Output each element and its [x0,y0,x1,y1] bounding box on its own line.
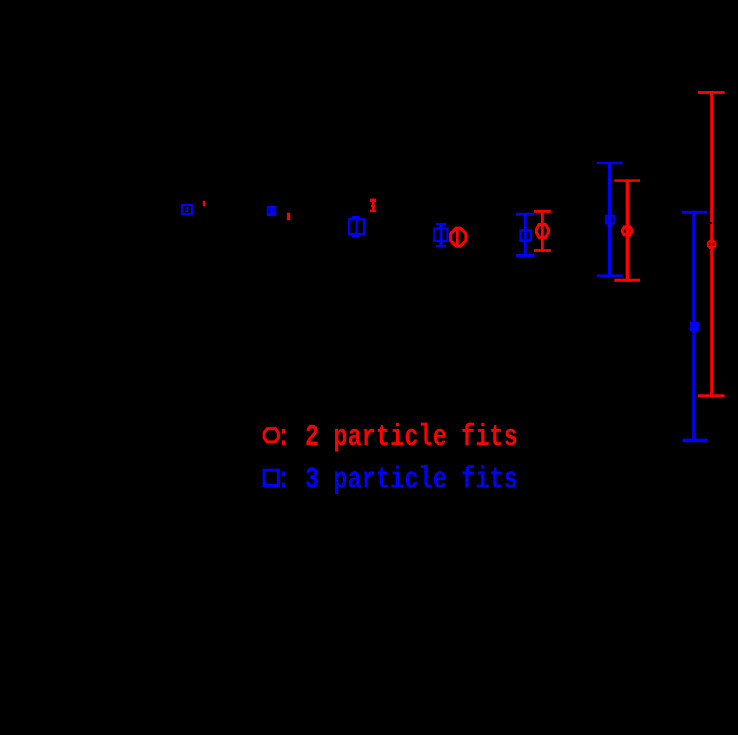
red data point 7: small circle (octagon) marker with very long capped error bar [698,91,725,397]
blue data point 7: filled square marker with very long capped error bar [682,211,708,442]
blue data point 5: open square marker with capped error bar [516,213,534,257]
blue data point 1: open square marker with tiny error bar [182,205,192,214]
legend text: 2 particle fits (red) [277,420,518,455]
red data point 1: tiny error bar [203,201,206,207]
legend text: 3 particle fits (blue) [277,463,518,498]
blue data point 3: open square marker with capped error bar [349,216,364,237]
red data point 3: capped error bar with tiny circle marker [370,199,376,212]
red data point 6: open circle (octagon) marker with long capped error bar [614,179,640,281]
svg-text:: 2 particle fits: : 2 particle fits [277,420,518,455]
legend circle symbol (red octagon O) [264,429,278,442]
svg-text:: 3 particle fits: : 3 particle fits [277,463,518,498]
red data point 5: open circle (octagon) marker with capped error bar [534,210,551,252]
legend square symbol (blue open square) [264,470,278,485]
blue data point 2: small square marker with error bar [267,206,277,216]
red data point 4: open circle (octagon) marker with error bar [451,227,466,247]
red data point 2: tiny error bar [287,213,290,221]
blue data point 4: open square marker with capped error bar [434,223,447,247]
blue data point 6: open square marker with long capped error bar [597,162,623,277]
